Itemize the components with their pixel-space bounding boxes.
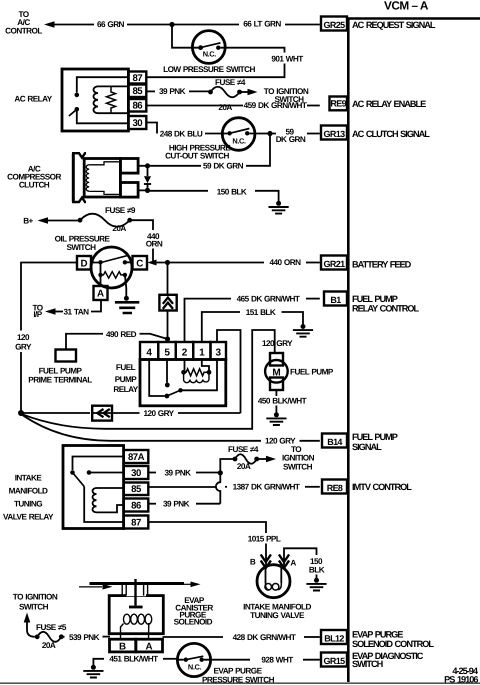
svg-text:450 BLK/WHT: 450 BLK/WHT xyxy=(258,397,307,406)
svg-text:N.C.: N.C. xyxy=(203,50,217,59)
connector B14 xyxy=(322,434,347,448)
wire oil switch A to 31 TAN xyxy=(56,300,102,316)
fuse F4 (top) 20A xyxy=(208,78,246,112)
ground G3 (151 BLK) xyxy=(293,324,313,337)
connector RE9 xyxy=(330,97,348,111)
wire 59 DK GRN down to clutch xyxy=(148,134,271,171)
svg-text:4: 4 xyxy=(146,348,152,359)
svg-text:PUMP: PUMP xyxy=(115,375,138,384)
svg-text:CONTROL: CONTROL xyxy=(5,26,42,35)
svg-text:AC RELAY ENABLE: AC RELAY ENABLE xyxy=(352,99,426,109)
svg-text:SIGNAL: SIGNAL xyxy=(352,442,382,452)
intake manifold tuning valve L2 xyxy=(257,565,290,598)
fuse F9 20A xyxy=(78,206,136,233)
ground G4 (450 BLK/WHT) xyxy=(266,412,286,425)
wire 151 BLK pin 1 to ground xyxy=(202,308,303,342)
svg-text:SWITCH: SWITCH xyxy=(19,602,49,611)
A/C compressor clutch L1 xyxy=(72,153,138,202)
svg-text:85: 85 xyxy=(132,86,143,97)
svg-text:VALVE RELAY: VALVE RELAY xyxy=(3,512,54,521)
svg-text:B14: B14 xyxy=(327,437,342,447)
net label FUEL PUMP SIGNAL xyxy=(352,432,398,452)
svg-text:30: 30 xyxy=(132,118,142,129)
connector BL12 xyxy=(321,630,347,644)
svg-text:440 ORN: 440 ORN xyxy=(270,258,302,267)
wire vertical with hop over 1387 xyxy=(216,473,220,504)
wire 59 DK GRN to GR13 xyxy=(255,127,320,144)
arrow up to ignition switch xyxy=(24,613,35,637)
svg-text:SOLENOID: SOLENOID xyxy=(174,617,213,626)
junction node 39 PNK xyxy=(218,470,223,475)
svg-text:31 TAN: 31 TAN xyxy=(64,307,90,316)
svg-text:86: 86 xyxy=(131,501,141,512)
svg-text:39 PNK: 39 PNK xyxy=(163,500,190,509)
diode CR1 across clutch xyxy=(144,166,151,191)
arrow to ignition switch (top) xyxy=(240,87,309,104)
fuse F4 (mid) 20A xyxy=(228,445,259,471)
fuel pump relay pin 2 xyxy=(176,342,193,360)
svg-text:I/P: I/P xyxy=(33,310,42,319)
wire 450 BLK/WHT pump to ground xyxy=(258,390,307,413)
node TO A/C CONTROL xyxy=(5,10,42,36)
svg-text:85: 85 xyxy=(131,484,142,495)
AC relay internal resistor xyxy=(107,86,116,113)
svg-text:DK GRN: DK GRN xyxy=(276,135,306,144)
svg-text:120 GRY: 120 GRY xyxy=(262,339,293,348)
wire 1387 DK GRN/WHT pin 85 to RE8 xyxy=(148,483,319,492)
svg-text:928 WHT: 928 WHT xyxy=(261,655,293,664)
fuel pump relay pin 1 xyxy=(193,342,210,360)
svg-text:FUEL PUMP: FUEL PUMP xyxy=(290,367,334,376)
svg-text:ORN: ORN xyxy=(146,239,163,248)
svg-text:RELAY: RELAY xyxy=(113,385,138,394)
wire up to fuse 4 (mid) xyxy=(220,459,235,473)
svg-text:GR15: GR15 xyxy=(324,656,346,666)
wire 150 BLK clutch to ground xyxy=(138,187,279,201)
connector RE8 xyxy=(322,480,347,494)
intake relay pin 30 xyxy=(124,466,149,479)
label FUEL PUMP RELAY xyxy=(113,363,138,394)
wire 120 GRY junction to chevron to pin3 xyxy=(21,406,241,421)
wire B+ to fuse 9 xyxy=(48,220,81,222)
connector GR21 xyxy=(321,256,347,270)
svg-text:150 BLK: 150 BLK xyxy=(217,187,247,196)
svg-text:87: 87 xyxy=(131,518,141,529)
junction node clutch bottom xyxy=(145,188,150,193)
svg-text:120 GRY: 120 GRY xyxy=(143,409,174,418)
fuel pump relay internal coil and resistor xyxy=(181,360,211,383)
svg-text:GR21: GR21 xyxy=(324,259,346,269)
svg-text:66 LT GRN: 66 LT GRN xyxy=(243,20,281,29)
wire 928 WHT to GR15 xyxy=(211,655,320,664)
wire 440 ORN fuse 9 down to oil switch C xyxy=(130,220,163,262)
svg-text:RE8: RE8 xyxy=(327,483,343,493)
label HIGH PRESSURE CUT-OUT SWITCH xyxy=(165,143,231,160)
svg-text:FUEL PUMP: FUEL PUMP xyxy=(39,366,83,375)
svg-text:RELAY CONTROL: RELAY CONTROL xyxy=(352,303,419,313)
svg-text:N.C.: N.C. xyxy=(188,662,202,671)
wire fuel pump feed (junction to pump top) xyxy=(22,330,275,429)
wire 490 RED xyxy=(66,330,168,350)
arrow to ignition switch (mid) xyxy=(257,445,315,472)
evap solenoid terminal A xyxy=(136,639,163,652)
svg-text:120: 120 xyxy=(17,333,30,342)
connector GR25 xyxy=(321,17,347,31)
intake manifold tuning valve relay K3 xyxy=(63,446,124,529)
svg-text:TO IGNITION: TO IGNITION xyxy=(13,592,58,601)
svg-text:AC REQUEST SIGNAL: AC REQUEST SIGNAL xyxy=(352,20,436,30)
svg-text:GRY: GRY xyxy=(15,342,32,351)
svg-text:539 PNK: 539 PNK xyxy=(69,633,100,642)
svg-text:59 DK GRN: 59 DK GRN xyxy=(203,162,244,171)
intake relay pin 87 xyxy=(124,516,149,529)
connector GR15 xyxy=(321,653,347,667)
svg-text:SWITCH: SWITCH xyxy=(67,243,97,252)
wire 440 ORN to GR21 with arrow into C xyxy=(147,258,319,267)
intake relay internal switch xyxy=(70,457,123,523)
junction node 490 RED / pin 5 xyxy=(165,336,170,341)
ground G1 (150 BLK) xyxy=(269,201,289,214)
label INTAKE MANIFOLD TUNING VALVE RELAY xyxy=(3,473,54,521)
svg-text:451 BLK/WHT: 451 BLK/WHT xyxy=(109,654,158,663)
svg-text:SWITCH: SWITCH xyxy=(352,659,384,669)
evap solenoid terminal B xyxy=(110,639,136,652)
off-page connector chevron up (440 ORN feed) xyxy=(159,263,176,337)
svg-text:BLK: BLK xyxy=(309,565,325,574)
svg-text:GR13: GR13 xyxy=(324,129,346,139)
svg-text:465 DK GRN/WHT: 465 DK GRN/WHT xyxy=(237,294,300,303)
oil pressure switch S3 xyxy=(77,247,147,301)
svg-text:151 BLK: 151 BLK xyxy=(246,308,276,317)
svg-text:PRESSURE SWITCH: PRESSURE SWITCH xyxy=(202,675,275,684)
wire 901 WHT (switch to AC relay 87) xyxy=(146,48,303,77)
svg-text:30: 30 xyxy=(131,468,141,479)
svg-text:IGNITION: IGNITION xyxy=(282,453,315,462)
intake relay internal coil xyxy=(93,488,124,512)
svg-text:490 RED: 490 RED xyxy=(106,330,137,339)
net label EVAP PURGE SOLENOID CONTROL xyxy=(352,630,434,650)
svg-text:66 GRN: 66 GRN xyxy=(97,20,125,29)
wire 459 DK GRN/WHT to RE9 xyxy=(146,101,319,110)
fuel pump motor M1 xyxy=(265,353,288,390)
svg-text:SWITCH: SWITCH xyxy=(283,462,313,471)
svg-text:GR25: GR25 xyxy=(324,20,346,30)
AC relay pin 87 xyxy=(128,72,146,84)
svg-text:C: C xyxy=(136,258,143,269)
label EVAP CANISTER PURGE SOLENOID xyxy=(174,596,214,627)
AC relay internal coil xyxy=(94,86,129,113)
svg-text:PRIME TERMINAL: PRIME TERMINAL xyxy=(28,375,92,384)
fuel pump prime terminal TP1 xyxy=(28,350,92,385)
date note 4-25-94 PS 19106 xyxy=(444,666,479,685)
wire clutch top terminal to 59 DK GRN xyxy=(138,165,147,167)
junction node 120 GRY distribution xyxy=(18,410,24,416)
wire 39 PNK (pin 85 to fuse 4) xyxy=(146,87,210,96)
junction node 440 ORN xyxy=(165,260,170,265)
wire 150 BLK tuning valve A to ground xyxy=(279,548,325,583)
label EVAP PURGE PRESSURE SWITCH xyxy=(202,666,275,684)
AC relay internal switch xyxy=(69,77,128,123)
svg-text:FUSE ≠9: FUSE ≠9 xyxy=(105,206,136,215)
fuel pump relay pin 3 xyxy=(211,342,227,360)
svg-text:FUEL: FUEL xyxy=(116,363,136,372)
svg-text:FUSE ≠4: FUSE ≠4 xyxy=(215,78,246,87)
svg-text:PS 19106: PS 19106 xyxy=(444,675,478,685)
svg-text:CLUTCH: CLUTCH xyxy=(19,180,50,189)
svg-text:RE9: RE9 xyxy=(330,99,346,109)
wire 248 DK BLU (pin 30 to cutout switch) xyxy=(146,123,222,139)
svg-text:39 PNK: 39 PNK xyxy=(159,87,186,96)
svg-text:B: B xyxy=(250,557,256,566)
wire 120 GRY to B14 xyxy=(22,415,320,446)
svg-text:MANIFOLD: MANIFOLD xyxy=(9,486,48,495)
node TO IGNITION SWITCH (bottom) xyxy=(13,592,58,611)
svg-text:D: D xyxy=(80,258,87,269)
ground G5 (150 BLK valve) xyxy=(306,578,326,591)
svg-text:AC RELAY: AC RELAY xyxy=(14,94,52,103)
svg-text:39 PNK: 39 PNK xyxy=(165,468,192,477)
wire 428 DK GRN/WHT to BL12 xyxy=(163,633,320,642)
svg-text:EVAP PURGE: EVAP PURGE xyxy=(352,630,403,640)
svg-text:IMTV CONTROL: IMTV CONTROL xyxy=(352,482,412,492)
arrow TO I/P xyxy=(32,303,55,319)
svg-text:3: 3 xyxy=(216,348,222,359)
wire 39 PNK pin 86 to fuse node xyxy=(148,500,220,509)
svg-text:VCM – A: VCM – A xyxy=(384,0,429,13)
svg-text:87A: 87A xyxy=(128,452,145,463)
svg-text:5: 5 xyxy=(164,348,170,359)
svg-text:428 DK GRN/WHT: 428 DK GRN/WHT xyxy=(233,633,296,642)
svg-text:248 DK BLU: 248 DK BLU xyxy=(160,129,203,138)
fuel pump relay K2 xyxy=(140,360,226,406)
intake relay pin 87A xyxy=(124,450,149,463)
arrow to A/C control xyxy=(44,21,55,28)
evap canister purge solenoid L3 xyxy=(79,579,201,639)
svg-text:1: 1 xyxy=(199,348,205,359)
svg-text:BL12: BL12 xyxy=(324,634,344,644)
svg-text:1015 PPL: 1015 PPL xyxy=(248,534,281,543)
svg-text:FUEL PUMP: FUEL PUMP xyxy=(352,432,398,442)
svg-text:20A: 20A xyxy=(218,103,232,112)
wire 465 DK GRN/WHT pin 2 to B1 xyxy=(185,294,320,342)
ground G2 (oil pressure switch) xyxy=(115,302,139,313)
wire 451 BLK/WHT ground to pressure switch xyxy=(93,654,177,665)
low pressure switch S1 xyxy=(192,31,225,64)
wire 539 PNK fuse 5 to solenoid xyxy=(61,633,110,642)
label INTAKE MANIFOLD TUNING VALVE xyxy=(243,603,311,620)
svg-text:INTAKE: INTAKE xyxy=(15,473,43,482)
AC relay pin 85 xyxy=(128,85,146,98)
connector GR13 xyxy=(321,126,347,140)
svg-text:87: 87 xyxy=(132,73,142,84)
AC relay K1 xyxy=(62,69,128,131)
connector B1 xyxy=(324,292,347,306)
svg-text:BATTERY FEED: BATTERY FEED xyxy=(352,259,412,269)
net label FUEL PUMP RELAY CONTROL xyxy=(352,294,419,313)
label A/C COMPRESSOR CLUTCH xyxy=(7,164,61,189)
intake relay pin 85 xyxy=(124,483,149,496)
svg-text:EVAP PURGE: EVAP PURGE xyxy=(213,666,262,675)
wire 1015 PPL pin 87 to tuning valve B xyxy=(148,522,281,583)
arrow to B+ xyxy=(38,217,49,224)
junction node 66 GRN xyxy=(169,22,174,27)
svg-text:N.C.: N.C. xyxy=(232,136,246,145)
wire junction to low pressure switch xyxy=(172,25,193,48)
svg-text:459 DK GRN/WHT: 459 DK GRN/WHT xyxy=(244,101,307,110)
svg-text:TUNING: TUNING xyxy=(14,499,42,508)
high pressure cut-out switch S2 xyxy=(222,118,255,151)
svg-text:B: B xyxy=(119,642,126,653)
wire 66 GRN xyxy=(54,20,172,29)
intake relay pin 86 xyxy=(124,499,149,512)
evap purge pressure switch S4 xyxy=(177,643,210,676)
AC relay pin 86 xyxy=(128,99,146,112)
wire pin 3 to 120 GRY net xyxy=(217,330,241,413)
net label EVAP DIAGNOSTIC SWITCH xyxy=(352,651,424,669)
svg-text:86: 86 xyxy=(132,101,142,112)
svg-text:B1: B1 xyxy=(330,295,341,305)
wire 39 PNK pin 30 to fuse 4 node xyxy=(148,468,220,477)
fuel pump relay pin 4 xyxy=(140,342,158,360)
ground G6 (451 BLK/WHT) xyxy=(83,665,103,678)
svg-text:B+: B+ xyxy=(23,216,33,225)
svg-text:LOW PRESSURE SWITCH: LOW PRESSURE SWITCH xyxy=(163,65,255,74)
svg-text:2: 2 xyxy=(182,348,188,359)
fuel pump relay pin 5 xyxy=(158,342,176,360)
svg-text:CUT-OUT SWITCH: CUT-OUT SWITCH xyxy=(165,151,229,160)
svg-text:901 WHT: 901 WHT xyxy=(271,55,303,64)
fuse F5 20A xyxy=(35,623,67,650)
wire 120 GRY left rail (D terminal down to junction) xyxy=(15,263,77,412)
svg-text:1387 DK GRN/WHT: 1387 DK GRN/WHT xyxy=(233,483,300,492)
svg-text:20A: 20A xyxy=(42,641,56,650)
svg-text:20A: 20A xyxy=(237,462,251,471)
svg-text:20A: 20A xyxy=(112,224,126,233)
fuel pump relay internal switch xyxy=(149,360,217,399)
junction node clutch top xyxy=(145,163,150,168)
svg-text:A: A xyxy=(290,559,296,568)
svg-text:FUSE ≠5: FUSE ≠5 xyxy=(36,623,67,632)
AC relay pin 30 xyxy=(128,116,146,129)
svg-text:SOLENOID CONTROL: SOLENOID CONTROL xyxy=(352,639,434,649)
wire 66 LT GRN to GR25 xyxy=(172,20,320,29)
svg-text:AC CLUTCH SIGNAL: AC CLUTCH SIGNAL xyxy=(352,129,430,139)
svg-text:TUNING VALVE: TUNING VALVE xyxy=(250,611,305,620)
svg-text:A: A xyxy=(97,289,104,300)
junction node 59 DK GRN xyxy=(267,131,272,136)
svg-text:FUSE ≠4: FUSE ≠4 xyxy=(228,445,259,454)
svg-text:A: A xyxy=(145,642,152,653)
label OIL PRESSURE SWITCH xyxy=(55,234,111,252)
